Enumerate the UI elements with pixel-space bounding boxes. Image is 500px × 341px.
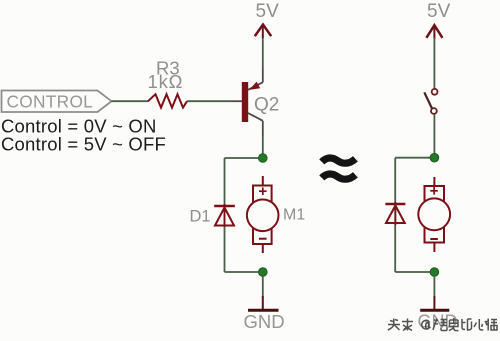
net label CONTROL: [2, 91, 112, 113]
wire diode branch to node B: [225, 271, 263, 273]
node B junction: [259, 268, 268, 277]
wire node C to right diode branch: [395, 157, 434, 159]
wire switch to node C: [433, 114, 435, 158]
svg-text:Control = 5V ~ OFF: Control = 5V ~ OFF: [1, 134, 166, 155]
node A junction: [259, 154, 268, 163]
wire Q2 emitter to 5V: [262, 68, 264, 83]
resistor R3: [148, 94, 187, 107]
wire right diode branch vertical: [394, 158, 396, 272]
svg-text:D1: D1: [190, 208, 211, 226]
supply 5V right: [426, 25, 442, 39]
node D junction: [430, 268, 439, 277]
svg-text:5V: 5V: [427, 1, 451, 22]
wire Q2 collector to node A: [262, 121, 264, 136]
approx symbol: [322, 158, 356, 179]
watermark 头条 @绿色比心情: [388, 318, 497, 331]
wire diode branch vertical: [224, 158, 226, 272]
supply 5V left: [255, 25, 271, 39]
motor M1: [247, 176, 279, 253]
wire node B to GND: [262, 276, 264, 297]
motor right: [418, 177, 450, 252]
wire R3 to Q2 base: [187, 100, 231, 102]
transistor Q2: [242, 82, 263, 122]
svg-text:1kΩ: 1kΩ: [148, 71, 184, 92]
svg-text:M1: M1: [283, 207, 305, 224]
node C junction: [430, 153, 439, 162]
svg-text:CONTROL: CONTROL: [7, 92, 94, 112]
wire node A to diode branch: [225, 157, 263, 159]
wire node D to right GND: [433, 276, 435, 297]
wire 5V to switch: [433, 38, 435, 89]
ground right: [420, 296, 449, 310]
diode D1: [214, 204, 235, 227]
wire right diode branch to node D: [395, 271, 434, 273]
svg-text:Q2: Q2: [254, 95, 279, 116]
diode right: [385, 202, 405, 225]
ground left: [248, 296, 279, 310]
wire CONTROL to R3: [112, 100, 149, 102]
switch S1: [424, 89, 437, 114]
svg-text:GND: GND: [244, 311, 285, 332]
svg-text:5V: 5V: [256, 1, 280, 22]
